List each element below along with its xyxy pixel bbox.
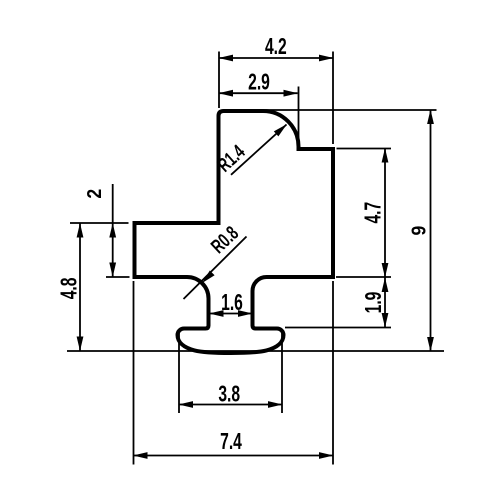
- bottom reference line: [67, 350, 444, 352]
- profile outline: [135, 111, 334, 353]
- ext 4.7 top: [337, 148, 392, 150]
- arrows 9: [427, 110, 434, 125]
- dim 4.7 line: [384, 149, 386, 278]
- ext 7.4 right: [332, 281, 334, 465]
- ext y=223 left arm top: [70, 222, 129, 224]
- arrow R1.4: [274, 122, 289, 137]
- dim 9 line: [430, 110, 432, 351]
- svg-text:2: 2: [83, 189, 105, 199]
- svg-text:1.9: 1.9: [361, 292, 387, 314]
- arrows 7.4: [133, 452, 148, 459]
- arrows 3.8: [179, 401, 194, 408]
- svg-text:3.8: 3.8: [218, 382, 240, 408]
- ext 4.7 bottom / 1.9 top: [336, 276, 391, 278]
- svg-text:1.6: 1.6: [221, 290, 243, 316]
- arrows 4.8: [77, 223, 84, 238]
- arrows 4.2: [219, 55, 234, 62]
- svg-text:7.4: 7.4: [220, 429, 242, 455]
- dim 4.8 line: [79, 223, 81, 351]
- dim 1.9 line: [384, 277, 386, 328]
- dim 1.6 line: [210, 313, 253, 315]
- ext 7.4 left: [133, 281, 135, 465]
- arrows 4.7: [382, 148, 389, 163]
- leader R0.8: [184, 237, 247, 300]
- ext 1.9 bottom: [285, 327, 391, 329]
- ext left of 4.2/2.9: [218, 52, 220, 109]
- leader R1.4: [231, 125, 287, 175]
- dim 2 line: [112, 184, 114, 277]
- dim 2.9 line: [219, 92, 298, 94]
- dim 4.2 line: [219, 57, 333, 59]
- dim 7.4 line: [134, 455, 334, 457]
- svg-text:R0.8: R0.8: [207, 222, 243, 258]
- ext y=277 left arm bottom: [106, 276, 130, 278]
- dim 3.8 line: [179, 404, 282, 406]
- ext 3.8 right: [281, 330, 283, 413]
- svg-text:4.7: 4.7: [361, 202, 387, 224]
- ext right of 4.2: [332, 52, 334, 145]
- ext right of 2.9: [298, 87, 300, 144]
- svg-text:2.9: 2.9: [248, 70, 270, 96]
- svg-text:9: 9: [408, 226, 430, 236]
- ext 3.8 left: [178, 330, 180, 413]
- arrows 1.9: [382, 278, 389, 293]
- arrows 2: [109, 223, 116, 238]
- arrows 2.9: [219, 90, 234, 97]
- svg-text:4.8: 4.8: [56, 277, 82, 299]
- arrows 1.6: [209, 310, 224, 317]
- svg-text:4.2: 4.2: [265, 34, 287, 60]
- ext top for 9: [263, 109, 437, 111]
- arrow R0.8: [200, 270, 215, 285]
